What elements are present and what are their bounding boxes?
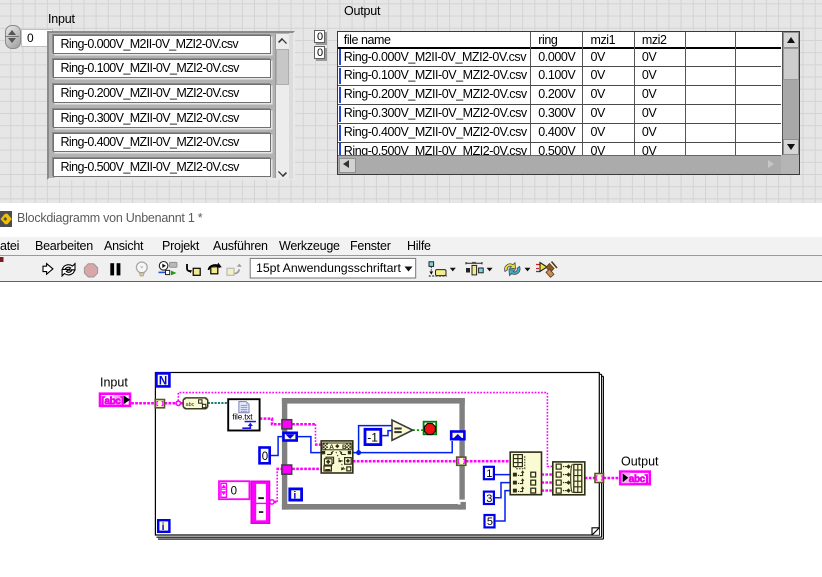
svg-text:-1: -1 (367, 430, 378, 444)
wire: shift register to match icon (298, 437, 321, 453)
build array icon (553, 462, 585, 495)
column lines (530, 32, 531, 156)
reorder button (505, 263, 531, 276)
abort button (disabled) (84, 264, 97, 277)
for loop iteration terminal i (158, 520, 169, 533)
clean up diagram button (536, 262, 557, 278)
svg-text:file.txt: file.txt (232, 412, 253, 422)
wires: 1,3,5 constants to index array (495, 475, 510, 521)
numeric spinner control (5, 25, 21, 49)
wire: match offset out to junction, equal, shift register (353, 426, 452, 453)
wires: index array outputs to build array (542, 475, 553, 491)
svg-text:[abc]: [abc] (102, 396, 124, 407)
wire: top tunnel to match icon (292, 423, 315, 426)
svg-text:Output: Output (621, 455, 659, 469)
while loop iteration terminal i (290, 489, 302, 502)
loop condition stop terminal (424, 422, 437, 435)
wire: build array to for tunnel to output (585, 477, 595, 480)
for loop frame shadow 2 (157, 374, 602, 537)
while loop border (282, 398, 466, 510)
svg-text:15pt Anwendungsschriftart: 15pt Anwendungsschriftart (256, 261, 402, 275)
wire: top rail string array to build array (178, 393, 553, 467)
svg-text:B: B (342, 444, 347, 451)
wire: dash-array constant up to lower tunnel (271, 501, 277, 504)
svg-text:abc]: abc] (629, 474, 648, 485)
LabVIEW title icon (0, 211, 12, 227)
constant -1 (365, 429, 381, 444)
svg-text:1: 1 (486, 468, 492, 480)
wire: while tunnel to index array (466, 460, 510, 463)
front panel area with grid (0, 0, 822, 203)
distribute objects button (466, 262, 493, 275)
numeric value box (21, 29, 53, 47)
string array constant "-" : elements (251, 481, 269, 523)
step into button (187, 264, 200, 275)
pause button (110, 263, 114, 275)
toolbar left-edge clipped icon (0, 257, 4, 262)
while lower string tunnel (282, 465, 292, 474)
step out button (disabled) (227, 264, 242, 276)
wire junction ring (176, 401, 180, 405)
svg-text:Input: Input (100, 376, 128, 390)
svg-text:0: 0 (231, 486, 237, 498)
wire: 0 constant to left shift register (blue) (271, 437, 282, 456)
Output label (344, 4, 380, 18)
match/scan string icon (321, 441, 353, 473)
for loop N border (155, 373, 599, 536)
while top string tunnel (282, 420, 292, 429)
menu bar (0, 237, 822, 256)
svg-text:3: 3 (486, 493, 492, 505)
listbox scrollbar (275, 34, 290, 179)
svg-text:0: 0 (262, 451, 268, 463)
diagram area (0, 286, 822, 577)
run continuously button (62, 264, 75, 276)
table index boxes (314, 30, 325, 44)
constant 0 (260, 448, 270, 464)
index array icon (510, 452, 541, 495)
svg-text:i: i (162, 521, 165, 533)
data rows (338, 49, 781, 68)
wire: file.txt output to while tunnel (260, 419, 282, 425)
constant 5 (485, 515, 495, 528)
for loop frame shadow 3 (158, 376, 603, 539)
for loop right tunnel (auto-index, output) (595, 474, 604, 483)
wire: -1 constant to equal (382, 431, 392, 436)
svg-text:abc: abc (186, 402, 195, 408)
run button (43, 264, 53, 275)
string array constant "-" : index spinner (219, 481, 249, 499)
align objects button (429, 262, 456, 276)
for loop corner fold (592, 528, 599, 535)
svg-text:A: A (329, 444, 334, 451)
for loop count terminal N (156, 373, 169, 387)
wire: input terminal to for-loop tunnel (string array) (131, 402, 155, 405)
highlight execution (bulb) button (136, 262, 147, 276)
svg-text:i: i (293, 490, 296, 502)
wire: tunnel to string-to-path (165, 402, 184, 405)
Output table (337, 31, 801, 175)
Input listbox (47, 31, 295, 181)
horizontal scrollbar (338, 155, 781, 173)
wire: equal to stop terminal (boolean) (413, 429, 423, 431)
while right shift register (451, 432, 464, 440)
while right indexing tunnel (457, 457, 466, 465)
font selector dropdown (250, 258, 416, 278)
svg-text:5: 5 (487, 516, 493, 528)
while left shift register (284, 433, 297, 441)
equal? comparison (392, 420, 413, 440)
constant 3 (484, 492, 494, 505)
constant 1 (484, 467, 494, 480)
string to path icon (183, 398, 208, 409)
toolbar (0, 256, 822, 282)
retain wire values button (159, 262, 178, 276)
vertical scrollbar (782, 32, 799, 156)
wire: path (teal) string-to-path to file.txt VI (208, 402, 229, 404)
header row (338, 33, 391, 47)
wire: match icon to while indexing tunnel (353, 460, 457, 463)
svg-text:N: N (159, 375, 167, 387)
input string-array control terminal (100, 394, 130, 407)
Input label (48, 12, 75, 26)
read from text file VI (file.txt) (228, 399, 259, 430)
for loop left tunnel (auto-index) (155, 400, 164, 408)
wire: lower tunnel to match icon (292, 468, 321, 471)
output string-array indicator terminal (620, 472, 650, 486)
step over button (209, 263, 222, 274)
window title bar (0, 203, 822, 237)
